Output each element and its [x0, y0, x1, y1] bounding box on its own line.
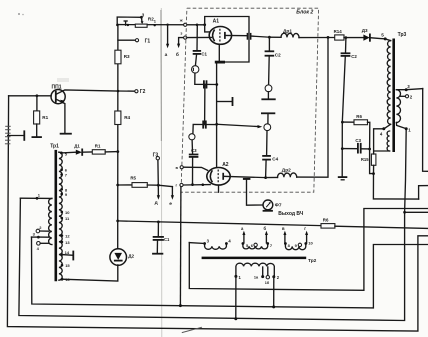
svg-text:А2: А2	[222, 162, 229, 168]
svg-text:Др2: Др2	[282, 167, 291, 173]
svg-text:С3: С3	[191, 148, 197, 153]
svg-text:С3: С3	[355, 138, 361, 143]
svg-text:Г3: Г3	[153, 153, 159, 159]
svg-text:Д2: Д2	[128, 254, 134, 259]
svg-text:ж: ж	[179, 18, 183, 23]
svg-text:12: 12	[65, 234, 70, 239]
svg-text:С1: С1	[201, 51, 207, 56]
svg-text:б: б	[264, 226, 267, 231]
svg-text:С4: С4	[272, 157, 278, 162]
svg-text:R4: R4	[124, 115, 130, 120]
svg-text:10: 10	[65, 210, 70, 215]
svg-text:10: 10	[308, 240, 313, 245]
svg-text:С2: С2	[275, 53, 281, 58]
svg-text:в: в	[282, 226, 285, 231]
svg-text:14: 14	[65, 250, 70, 255]
svg-text:1б: 1б	[265, 281, 270, 285]
svg-text:С2: С2	[351, 54, 357, 59]
svg-text:а: а	[165, 53, 168, 58]
svg-text:Г1: Г1	[145, 39, 151, 45]
svg-text:ПП1: ПП1	[52, 85, 62, 91]
svg-text:R15: R15	[361, 157, 369, 162]
svg-text:д: д	[155, 201, 158, 206]
svg-text:Г2: Г2	[140, 89, 146, 95]
svg-text:R6: R6	[323, 217, 329, 222]
svg-text:б: б	[176, 51, 179, 58]
svg-text:Др1: Др1	[283, 29, 292, 35]
svg-text:е: е	[169, 202, 172, 207]
svg-text:Тр2: Тр2	[308, 258, 317, 264]
svg-text:R6: R6	[356, 114, 362, 119]
svg-text:Д3: Д3	[362, 28, 368, 33]
svg-text:г: г	[304, 226, 306, 231]
svg-text:Тр3: Тр3	[398, 32, 407, 38]
svg-text:R1: R1	[95, 144, 101, 149]
svg-text:з: з	[180, 30, 182, 35]
svg-text:15: 15	[65, 263, 70, 268]
svg-text:R5: R5	[130, 176, 136, 181]
svg-text:А1: А1	[213, 19, 220, 25]
svg-text:С1: С1	[164, 237, 170, 242]
svg-text:5: 5	[381, 32, 384, 37]
svg-text:Ф7: Ф7	[275, 202, 282, 208]
svg-text:R3: R3	[124, 54, 130, 59]
svg-text:R1: R1	[42, 115, 48, 120]
svg-text:R14: R14	[334, 29, 343, 34]
svg-text:Блок 2: Блок 2	[296, 9, 313, 15]
svg-text:13: 13	[65, 240, 70, 245]
svg-text:Тр1: Тр1	[50, 144, 59, 150]
svg-text:Д1: Д1	[74, 144, 80, 149]
svg-text:Выход ВЧ: Выход ВЧ	[278, 211, 304, 217]
